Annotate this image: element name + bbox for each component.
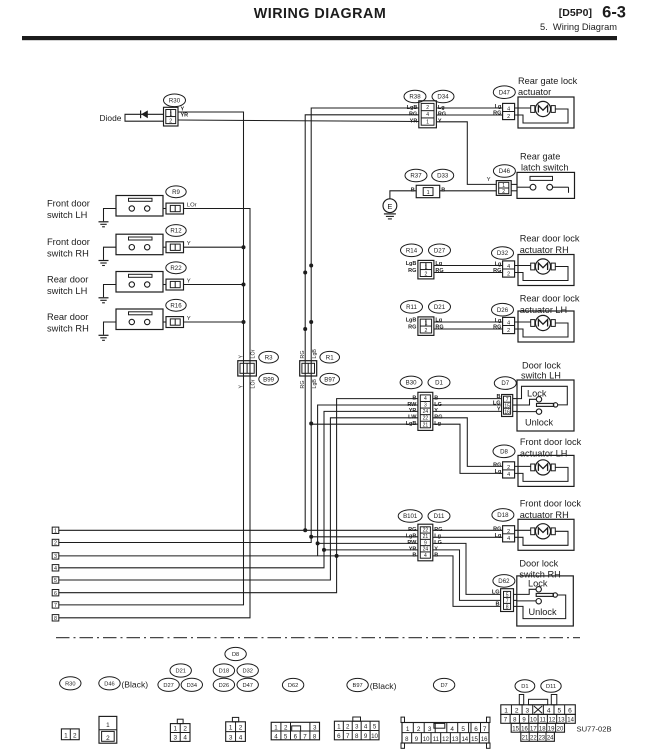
svg-text:2: 2 [507,114,510,120]
svg-text:1: 1 [426,119,429,125]
svg-text:D1: D1 [521,684,528,690]
svg-text:Y: Y [497,407,501,413]
svg-text:4: 4 [183,734,187,741]
svg-text:RG: RG [493,111,501,117]
svg-text:R11: R11 [406,304,417,311]
svg-text:2: 2 [54,541,57,547]
svg-text:B97: B97 [324,376,335,383]
svg-text:1: 1 [106,722,110,729]
svg-text:Lg: Lg [495,104,502,110]
svg-text:LOr: LOr [251,349,257,358]
svg-text:22: 22 [530,736,537,742]
svg-text:Door lock: Door lock [522,361,561,371]
svg-text:B97: B97 [353,683,363,689]
svg-text:RG: RG [409,112,417,118]
svg-text:Rear gate: Rear gate [520,152,560,162]
svg-text:4: 4 [507,321,510,327]
svg-text:R38: R38 [409,94,421,101]
svg-text:R16: R16 [170,302,182,309]
svg-text:R14: R14 [406,247,418,254]
svg-text:4: 4 [547,707,551,714]
svg-text:D33: D33 [437,173,449,180]
svg-text:12: 12 [442,737,449,743]
svg-text:5: 5 [54,578,57,584]
svg-text:4: 4 [364,724,368,731]
svg-text:switch LH: switch LH [521,371,561,381]
svg-text:2: 2 [507,529,510,535]
svg-text:B: B [497,394,501,400]
svg-text:9: 9 [364,733,368,740]
svg-text:D18: D18 [219,669,229,675]
svg-text:2: 2 [507,271,510,277]
svg-text:8: 8 [355,733,359,740]
svg-text:2: 2 [417,726,421,733]
svg-text:D21: D21 [434,304,446,311]
svg-text:2: 2 [73,733,77,740]
svg-text:LgB: LgB [406,318,417,324]
svg-text:RG: RG [493,527,501,533]
svg-text:LgB: LgB [312,379,318,389]
svg-text:5: 5 [557,707,561,714]
svg-text:B99: B99 [263,376,274,383]
svg-text:7: 7 [346,733,350,740]
svg-text:24: 24 [547,736,554,742]
svg-text:1: 1 [425,264,428,270]
svg-text:4: 4 [507,536,510,542]
svg-text:3: 3 [313,724,317,731]
svg-text:[D5P0]: [D5P0] [559,7,592,19]
svg-text:23: 23 [538,736,545,742]
svg-text:Front door: Front door [47,199,90,209]
svg-text:Lg: Lg [434,534,441,540]
svg-text:Y: Y [187,241,191,247]
svg-text:Front door lock: Front door lock [520,437,582,447]
svg-text:1: 1 [54,529,57,535]
svg-text:Diode: Diode [100,113,122,123]
svg-text:RG: RG [493,325,501,331]
svg-text:D34: D34 [437,94,449,101]
svg-text:D47: D47 [499,89,511,96]
svg-text:8: 8 [54,616,57,622]
svg-text:19: 19 [548,726,555,732]
svg-text:22: 22 [423,528,429,534]
svg-text:Lg: Lg [495,469,502,475]
svg-text:6-3: 6-3 [602,4,626,22]
svg-text:9: 9 [424,540,427,546]
svg-text:Rear gate lock: Rear gate lock [518,76,578,86]
svg-text:4: 4 [507,107,510,113]
svg-text:4: 4 [426,112,429,118]
svg-text:2: 2 [507,328,510,334]
svg-text:R9: R9 [172,189,180,196]
svg-text:WIRING DIAGRAM: WIRING DIAGRAM [254,6,386,22]
svg-text:6: 6 [568,707,572,714]
svg-text:switch LH: switch LH [47,286,87,296]
svg-text:4: 4 [274,733,278,740]
svg-text:Y: Y [187,316,191,322]
svg-text:5: 5 [373,724,377,731]
svg-text:D47: D47 [242,683,252,689]
svg-text:E: E [387,202,392,211]
svg-text:1: 1 [425,321,428,327]
svg-text:3: 3 [229,734,233,741]
svg-text:latch switch: latch switch [521,163,569,173]
svg-text:D62: D62 [498,578,510,585]
svg-text:2: 2 [426,105,429,111]
svg-text:switch LH: switch LH [47,210,87,220]
svg-text:RG: RG [408,324,416,330]
svg-text:LG: LG [492,590,500,596]
svg-text:Y: Y [238,385,244,389]
svg-text:6: 6 [54,591,57,597]
svg-text:D62: D62 [288,683,298,689]
svg-text:RG: RG [300,381,306,389]
svg-text:6: 6 [474,726,478,733]
svg-text:11: 11 [540,718,547,724]
svg-text:2: 2 [346,724,350,731]
svg-text:LgB: LgB [407,105,418,111]
svg-text:6: 6 [294,733,298,740]
svg-text:Lg: Lg [495,318,502,324]
svg-text:B101: B101 [403,513,418,520]
svg-text:Rear door lock: Rear door lock [520,294,580,304]
svg-text:actuator RH: actuator RH [520,245,569,255]
svg-text:24: 24 [423,547,429,553]
svg-text:12: 12 [549,718,556,724]
svg-text:R12: R12 [170,228,182,235]
svg-text:Rear door: Rear door [47,312,88,322]
svg-text:D7: D7 [501,380,509,387]
svg-text:YR: YR [409,408,417,414]
svg-text:22: 22 [423,416,429,422]
svg-text:switch RH: switch RH [47,323,89,333]
svg-text:B: B [412,395,416,401]
svg-text:Front door lock: Front door lock [520,499,582,509]
svg-text:7: 7 [506,397,509,403]
svg-text:13: 13 [452,737,459,743]
svg-text:3: 3 [54,554,57,560]
svg-text:actuator RH: actuator RH [520,510,569,520]
svg-text:SU77-02B: SU77-02B [577,725,612,734]
svg-text:LgB: LgB [312,349,318,359]
svg-text:24: 24 [423,409,429,415]
svg-text:D27: D27 [434,247,446,254]
svg-text:LgB: LgB [406,534,417,540]
svg-text:5: 5 [284,733,288,740]
svg-text:4: 4 [507,264,510,270]
svg-text:7: 7 [303,733,307,740]
svg-text:LOr: LOr [187,202,197,208]
svg-text:4: 4 [424,396,427,402]
svg-text:D11: D11 [434,513,445,520]
svg-text:10: 10 [530,718,537,724]
svg-text:Lg: Lg [495,533,502,539]
svg-text:15: 15 [512,726,519,732]
svg-text:D46: D46 [104,681,114,687]
svg-text:YR: YR [181,112,189,118]
svg-text:R37: R37 [410,173,422,180]
svg-text:D46: D46 [499,168,511,175]
svg-text:2: 2 [507,465,510,471]
svg-text:1: 1 [170,111,173,117]
svg-text:Door lock: Door lock [519,559,558,569]
svg-text:RW: RW [407,540,417,546]
svg-text:switch RH: switch RH [47,249,89,259]
svg-text:2: 2 [515,707,519,714]
svg-text:14: 14 [567,718,574,724]
svg-text:Y: Y [238,355,244,359]
svg-text:4: 4 [507,472,510,478]
svg-text:1: 1 [274,724,278,731]
svg-text:10: 10 [423,737,430,743]
svg-text:6: 6 [337,733,341,740]
svg-text:3: 3 [526,707,530,714]
svg-text:D32: D32 [242,669,252,675]
svg-text:2: 2 [424,272,427,278]
svg-text:Rear door: Rear door [47,275,88,285]
svg-text:YR: YR [410,118,418,124]
svg-text:R1: R1 [326,354,334,361]
svg-text:D32: D32 [497,250,509,257]
svg-text:R22: R22 [170,265,182,272]
svg-text:1: 1 [174,726,178,733]
svg-text:R3: R3 [265,354,273,361]
svg-text:4: 4 [450,726,454,733]
svg-text:2: 2 [502,189,505,195]
svg-text:21: 21 [522,736,529,742]
svg-text:actuator: actuator [518,87,551,97]
svg-text:R30: R30 [169,97,181,104]
svg-text:3: 3 [428,726,432,733]
svg-text:7: 7 [483,726,487,733]
svg-text:8: 8 [313,733,317,740]
svg-text:Y: Y [487,177,491,183]
svg-text:RG: RG [300,351,306,359]
svg-text:1: 1 [229,725,233,732]
svg-text:D21: D21 [175,669,185,675]
svg-text:R30: R30 [65,681,75,687]
svg-text:D8: D8 [500,448,508,455]
svg-text:Front door: Front door [47,237,90,247]
svg-text:3: 3 [355,724,359,731]
svg-text:20: 20 [557,726,564,732]
svg-text:D34: D34 [187,683,197,689]
svg-text:4: 4 [54,566,57,572]
svg-text:16: 16 [481,737,488,743]
svg-text:1: 1 [427,190,430,196]
svg-text:5: 5 [461,726,465,733]
svg-text:actuator LH: actuator LH [520,305,568,315]
svg-text:21: 21 [423,534,429,540]
svg-text:(Black): (Black) [370,681,397,691]
svg-text:3: 3 [424,403,427,409]
svg-text:7: 7 [54,603,57,609]
svg-text:2: 2 [169,119,172,125]
svg-text:14: 14 [461,737,468,743]
svg-text:21: 21 [423,422,429,428]
svg-text:LgB: LgB [406,261,417,267]
svg-text:B: B [412,553,416,559]
svg-text:1: 1 [406,726,410,733]
svg-text:16: 16 [521,726,528,732]
svg-text:5. Wiring Diagram: 5. Wiring Diagram [540,22,617,32]
svg-text:4: 4 [424,553,427,559]
svg-text:2: 2 [284,724,288,731]
svg-text:LOr: LOr [251,379,257,388]
svg-text:3: 3 [174,734,178,741]
svg-text:D27: D27 [163,683,173,689]
svg-text:RG: RG [408,268,416,274]
svg-text:Lg: Lg [435,318,442,324]
svg-text:1: 1 [64,733,68,740]
svg-text:13: 13 [558,718,565,724]
svg-text:2: 2 [106,735,110,742]
svg-text:B30: B30 [406,380,417,387]
svg-text:RG: RG [493,463,501,469]
svg-text:B: B [496,602,500,608]
svg-text:D26: D26 [497,307,509,314]
svg-text:actuator LH: actuator LH [520,448,568,458]
svg-text:18: 18 [539,726,546,732]
svg-text:LgB: LgB [406,421,417,427]
svg-text:2: 2 [424,328,427,334]
svg-text:Unlock: Unlock [525,417,553,427]
svg-text:D18: D18 [497,512,509,519]
svg-text:D26: D26 [219,683,229,689]
svg-text:1: 1 [504,707,508,714]
svg-text:RW: RW [407,402,417,408]
svg-text:8: 8 [506,605,509,611]
svg-text:15: 15 [471,737,478,743]
svg-text:1: 1 [337,724,341,731]
svg-text:10: 10 [371,733,378,740]
svg-text:2: 2 [183,726,187,733]
svg-text:LG: LG [493,400,501,406]
svg-text:LW: LW [408,415,417,421]
svg-text:Rear door lock: Rear door lock [520,234,580,244]
svg-text:D1: D1 [435,380,443,387]
svg-text:D7: D7 [440,683,447,689]
svg-text:2: 2 [239,725,243,732]
svg-text:RG: RG [493,268,501,274]
svg-text:4: 4 [239,734,243,741]
svg-text:17: 17 [530,726,537,732]
svg-text:RG: RG [408,527,416,533]
svg-text:Y: Y [187,278,191,284]
svg-text:(Black): (Black) [121,679,148,689]
svg-text:Unlock: Unlock [529,607,557,617]
svg-text:D11: D11 [546,684,556,690]
svg-text:Lg: Lg [435,261,442,267]
svg-text:11: 11 [433,737,440,743]
svg-text:Lg: Lg [495,262,502,268]
svg-text:D8: D8 [232,652,239,658]
svg-text:16: 16 [504,409,510,415]
svg-text:7: 7 [506,598,509,604]
